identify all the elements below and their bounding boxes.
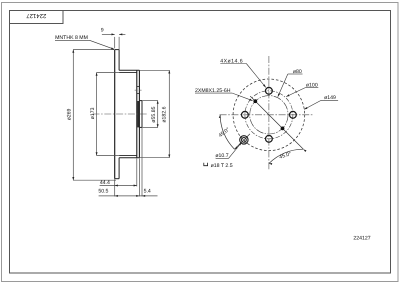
svg-text:ø173: ø173 [90,107,96,119]
svg-text:ø55.85: ø55.85 [151,106,157,122]
svg-text:ø149: ø149 [324,95,336,101]
svg-text:50.5: 50.5 [98,189,108,195]
svg-text:5.4: 5.4 [144,189,151,195]
svg-text:ø182.6: ø182.6 [161,106,167,122]
svg-text:224127: 224127 [26,12,47,19]
svg-text:ø269: ø269 [66,108,72,120]
svg-text:ø18 T 2.5: ø18 T 2.5 [211,163,233,169]
svg-text:44.4: 44.4 [100,180,110,186]
svg-text:224127: 224127 [353,236,370,242]
svg-text:9: 9 [101,28,104,34]
